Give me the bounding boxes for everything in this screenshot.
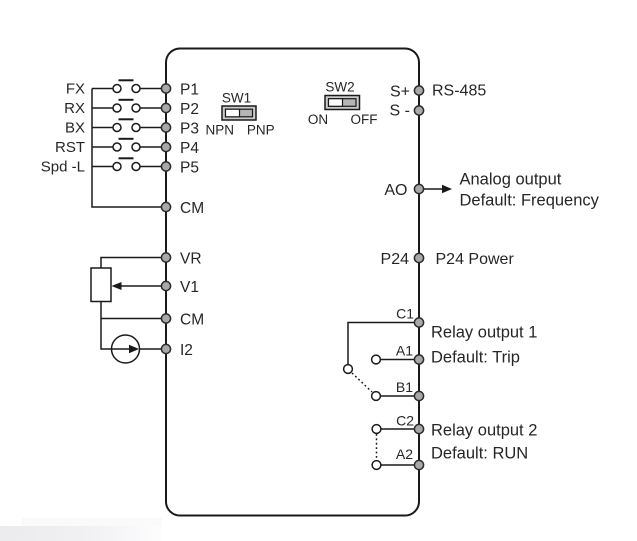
relay1 dotted actuation line: [352, 373, 372, 392]
switch RST actuator bar: [119, 138, 134, 140]
switch Spd-L row wires: [92, 166, 113, 168]
svg-text:P24 Power: P24 Power: [436, 251, 515, 268]
svg-text:P3: P3: [180, 121, 199, 138]
switch RX actuator bar: [119, 99, 134, 101]
AO arrow wire: [424, 188, 445, 190]
svg-text:P5: P5: [180, 160, 199, 177]
digital input common rail: [92, 89, 161, 208]
svg-text:C1: C1: [396, 306, 414, 322]
relay2 C2 wire: [381, 428, 419, 430]
svg-text:B1: B1: [396, 379, 413, 395]
current source arrow line: [112, 348, 134, 350]
switch FX actuator bar: [119, 79, 134, 81]
terminal CM lower: [161, 314, 170, 323]
terminal VR: [161, 253, 170, 262]
potentiometer body: [91, 268, 111, 302]
relay1 B1 contact circle: [372, 392, 381, 401]
svg-text:A2: A2: [396, 446, 413, 462]
svg-text:Analog output: Analog output: [460, 171, 562, 189]
switch Spd-L actuator bar: [119, 157, 134, 159]
terminal C1: [414, 318, 423, 327]
terminal B1: [414, 391, 423, 400]
switch RX contact circles: [113, 104, 121, 112]
terminal V1: [161, 281, 170, 290]
switch FX row wires: [92, 88, 113, 90]
svg-text:Relay output 2: Relay output 2: [431, 422, 537, 440]
svg-text:A1: A1: [396, 343, 413, 359]
relay1 B1 wire: [381, 395, 420, 397]
terminal S+: [414, 86, 423, 95]
svg-text:PNP: PNP: [247, 123, 275, 138]
SW2 knob: [329, 99, 343, 107]
svg-text:RST: RST: [55, 139, 85, 156]
svg-text:SW2: SW2: [325, 80, 354, 95]
switch BX contact circles: [113, 124, 121, 132]
switch FX contact circles: [113, 85, 121, 93]
terminal C2: [414, 424, 423, 433]
current source I2 circle: [112, 335, 140, 363]
terminal A1: [414, 355, 423, 364]
terminal P3: [161, 123, 170, 132]
switch RX row wires: [92, 107, 113, 109]
SW1 slide switch body: [222, 106, 256, 120]
svg-text:CM: CM: [180, 200, 204, 217]
pot bottom to I2 wire: [101, 302, 112, 350]
relay1 C1 wire and pole: [348, 323, 419, 365]
potentiometer wiper arrowhead: [112, 282, 122, 290]
svg-text:P2: P2: [180, 101, 199, 118]
terminal A2: [414, 460, 423, 469]
terminal AO: [414, 184, 423, 193]
svg-text:I2: I2: [180, 342, 193, 359]
SW1 channel: [226, 109, 253, 117]
I2 wire to terminal: [139, 348, 166, 350]
SW1 knob: [226, 109, 240, 117]
terminal P5: [161, 162, 170, 171]
relay1 A1 contact circle: [372, 355, 381, 364]
CM wire: [101, 318, 166, 320]
svg-text:C2: C2: [396, 413, 414, 429]
svg-text:RX: RX: [64, 100, 85, 117]
switch Spd-L contact circles: [113, 163, 121, 171]
svg-text:Spd -L: Spd -L: [41, 159, 85, 176]
relay1 A1 wire: [381, 359, 420, 361]
svg-text:Relay output 1: Relay output 1: [431, 324, 537, 342]
svg-text:Default: RUN: Default: RUN: [431, 445, 528, 463]
svg-text:VR: VR: [180, 251, 202, 268]
svg-text:V1: V1: [180, 279, 199, 296]
terminal P1: [161, 84, 170, 93]
relay2 C2 contact circle: [372, 425, 381, 434]
svg-text:Default: Trip: Default: Trip: [431, 349, 520, 367]
svg-text:S+: S+: [390, 83, 410, 100]
svg-text:NPN: NPN: [206, 123, 235, 138]
terminal CM: [161, 202, 170, 211]
svg-text:S -: S -: [390, 103, 410, 120]
svg-text:Default: Frequency: Default: Frequency: [460, 192, 600, 210]
svg-text:P24: P24: [381, 251, 410, 268]
svg-text:CM: CM: [180, 312, 204, 329]
svg-text:P4: P4: [180, 140, 199, 157]
inverter body outline: [166, 49, 419, 516]
relay2 dotted actuation line: [376, 434, 378, 460]
switch RST contact circles: [113, 143, 121, 151]
potentiometer VR wire: [101, 258, 166, 269]
switch BX actuator bar: [119, 118, 134, 120]
svg-text:P1: P1: [180, 82, 199, 99]
relay2 A2 contact circle: [372, 461, 381, 470]
SW2 channel: [329, 99, 357, 107]
svg-text:OFF: OFF: [351, 112, 378, 127]
svg-text:RS-485: RS-485: [432, 83, 486, 100]
svg-text:BX: BX: [65, 120, 85, 137]
AO arrowhead: [442, 185, 452, 193]
terminal P24: [414, 253, 423, 262]
terminal P4: [161, 142, 170, 151]
svg-text:FX: FX: [66, 81, 85, 98]
switch BX row wires: [92, 127, 113, 129]
switch RST row wires: [92, 146, 113, 148]
svg-text:ON: ON: [308, 112, 328, 127]
current source arrowhead: [129, 345, 139, 353]
relay1 pole circle: [344, 365, 353, 374]
svg-text:AO: AO: [384, 182, 407, 199]
relay2 A2 wire: [381, 464, 419, 466]
terminal S-: [414, 106, 423, 115]
terminal P2: [161, 103, 170, 112]
SW2 slide switch body: [325, 96, 360, 110]
terminal I2: [161, 344, 170, 353]
potentiometer wiper arrow wire V1: [120, 285, 166, 287]
svg-text:SW1: SW1: [222, 91, 251, 106]
